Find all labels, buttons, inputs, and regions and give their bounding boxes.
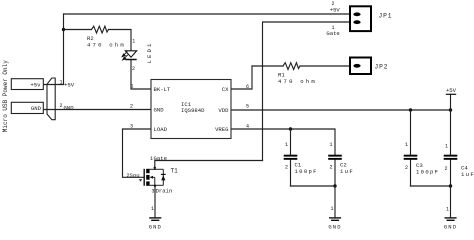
svg-text:1: 1 xyxy=(405,142,408,148)
svg-text:GND: GND xyxy=(149,224,162,231)
wire R1 left lead xyxy=(252,65,283,67)
svg-text:LOAD: LOAD xyxy=(154,126,168,133)
wire gnd rail C1 to C2 xyxy=(291,185,336,187)
pin arrow mark xyxy=(139,179,142,181)
svg-text:3: 3 xyxy=(130,124,133,130)
svg-text:VREG: VREG xyxy=(215,126,229,133)
svg-text:Drain: Drain xyxy=(156,188,173,195)
wire C2 bottom lead xyxy=(334,160,336,186)
wire R2 right lead to LED drop xyxy=(109,30,132,51)
resistor R1 labels xyxy=(278,72,317,85)
svg-text:2: 2 xyxy=(130,104,133,110)
wire Gate net horizontal to T1 xyxy=(155,161,263,170)
svg-text:5: 5 xyxy=(246,104,249,110)
svg-text:6: 6 xyxy=(246,84,249,90)
source arrow xyxy=(150,176,154,178)
USB bracket xyxy=(47,78,55,120)
svg-text:2: 2 xyxy=(60,103,63,109)
svg-text:4: 4 xyxy=(246,124,249,130)
top link xyxy=(150,168,164,170)
svg-text:1: 1 xyxy=(285,142,288,148)
wire C3 bottom lead xyxy=(410,160,412,186)
resistor R2 zigzag xyxy=(92,26,109,33)
svg-text:+5V: +5V xyxy=(446,87,457,94)
svg-text:+5v: +5v xyxy=(30,81,41,88)
svg-text:GND: GND xyxy=(64,105,75,112)
svg-text:Sou: Sou xyxy=(130,172,140,179)
capacitor C1 xyxy=(284,142,318,175)
svg-text:Micro USB Power Only: Micro USB Power Only xyxy=(2,60,9,132)
svg-text:Gate: Gate xyxy=(326,30,339,37)
junction VDD/C3 xyxy=(409,108,412,111)
wire Gate net JP1 pin1 to vertical xyxy=(263,22,351,161)
pin dot bottom xyxy=(154,185,156,187)
supply +5V symbol xyxy=(446,87,457,94)
wire C1 top lead xyxy=(290,129,292,155)
ground symbol below C4 xyxy=(444,207,457,231)
junction VDD/+5V/C4 xyxy=(449,108,452,111)
USB +5v box xyxy=(11,79,43,90)
junction C2/GND xyxy=(333,184,336,187)
svg-text:2: 2 xyxy=(285,165,288,171)
junction VREG/C1 xyxy=(289,127,292,130)
wire CX pin6 stub xyxy=(231,66,252,89)
svg-text:1uF: 1uF xyxy=(461,171,474,178)
svg-text:1: 1 xyxy=(446,207,449,213)
wire +5V net vertical from USB pin1 up to top rail xyxy=(63,14,65,85)
USB GND box xyxy=(11,102,43,113)
wire C3 top lead xyxy=(410,110,412,155)
connector JP1 xyxy=(326,1,392,37)
wire R1 right lead to JP2 xyxy=(300,65,350,67)
svg-text:IQS984D: IQS984D xyxy=(181,107,205,114)
svg-text:1: 1 xyxy=(60,79,63,85)
junction +5V/R2 tap xyxy=(62,28,65,31)
wire VREG net pin4 rail to C2 xyxy=(231,129,335,155)
wire VDD net pin5 rail xyxy=(231,109,451,111)
junction C4/GND xyxy=(449,184,452,187)
wire +5V net top rail to JP1 pin 2 xyxy=(64,13,351,15)
ground symbol below C2 xyxy=(328,206,341,231)
svg-text:1: 1 xyxy=(132,39,135,45)
gate bar xyxy=(143,169,145,186)
bottom link xyxy=(150,184,164,186)
svg-text:T1: T1 xyxy=(171,168,179,175)
wire C4 bottom lead xyxy=(450,160,452,186)
resistor R1 zigzag xyxy=(283,63,300,70)
ground symbol below T1 xyxy=(149,206,162,231)
svg-text:Gate: Gate xyxy=(154,155,167,162)
svg-text:2: 2 xyxy=(330,165,333,171)
svg-text:3: 3 xyxy=(152,188,155,194)
emission arrows xyxy=(122,52,128,60)
svg-text:VDD: VDD xyxy=(218,107,229,114)
svg-text:+5V: +5V xyxy=(330,6,341,13)
connector JP2 xyxy=(350,58,388,75)
svg-text:470 ohm: 470 ohm xyxy=(278,78,317,85)
svg-text:+5V: +5V xyxy=(64,82,75,89)
svg-text:2: 2 xyxy=(132,66,135,72)
svg-text:1: 1 xyxy=(330,142,333,148)
body diode xyxy=(161,173,166,175)
svg-text:GND: GND xyxy=(154,107,165,114)
IC U1 IQS984D box xyxy=(130,80,249,139)
resistor R2 labels xyxy=(87,35,126,48)
svg-text:1uF: 1uF xyxy=(340,168,354,175)
wire GND net USB pin2 to IC pin2 xyxy=(44,109,151,111)
svg-text:LED1: LED1 xyxy=(146,42,153,64)
svg-text:JP1: JP1 xyxy=(379,12,393,19)
wire C4 gnd drop xyxy=(450,186,452,218)
wire R2 left lead xyxy=(64,29,92,31)
svg-text:100pF: 100pF xyxy=(416,168,439,175)
capacitor C3 xyxy=(404,142,440,175)
capacitor C2 xyxy=(328,142,354,175)
wire gnd rail C3 to C4 xyxy=(411,185,451,187)
svg-text:CX: CX xyxy=(222,86,229,93)
svg-text:1: 1 xyxy=(151,206,154,212)
wire LOAD net pin3 to T1 source xyxy=(123,129,152,177)
wire USB pin1 stub xyxy=(44,84,64,86)
svg-text:2: 2 xyxy=(405,165,408,171)
LED LED1 cathode wire down and to IC pin1 xyxy=(131,60,151,89)
wire C2 gnd drop xyxy=(334,186,336,218)
wire T1 drain to gnd xyxy=(154,186,156,218)
connector USB: Micro USB Power Only xyxy=(2,60,75,132)
LED LED1 xyxy=(122,39,153,73)
svg-text:2: 2 xyxy=(445,166,448,172)
wire +5V supply drop xyxy=(450,94,452,110)
svg-text:100pF: 100pF xyxy=(295,168,318,175)
svg-text:1: 1 xyxy=(331,206,334,212)
channel segments xyxy=(146,169,149,173)
svg-text:GND: GND xyxy=(444,224,457,231)
svg-text:1: 1 xyxy=(445,144,448,150)
wire C4 top lead xyxy=(450,110,452,155)
svg-text:470 ohm: 470 ohm xyxy=(87,41,126,48)
svg-text:GND: GND xyxy=(328,224,341,231)
svg-text:1: 1 xyxy=(131,84,134,90)
capacitor C4 xyxy=(444,144,474,178)
wire C1 bottom lead xyxy=(290,160,292,186)
transistor T1 N-MOSFET xyxy=(127,155,179,195)
svg-text:BK-LT: BK-LT xyxy=(154,86,171,93)
svg-text:GND: GND xyxy=(31,105,42,112)
right vertical xyxy=(162,169,164,185)
svg-text:JP2: JP2 xyxy=(375,64,389,71)
pin dot xyxy=(154,167,156,169)
